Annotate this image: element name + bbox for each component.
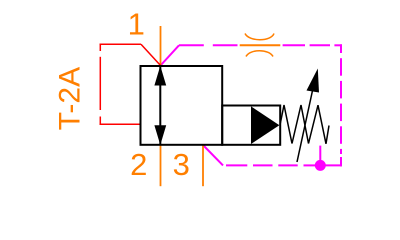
pilot supply left dashed vertical (red) [99,44,101,125]
svg-text:T-2A: T-2A [54,67,87,130]
orifice upper arc [245,34,274,40]
pilot poppet triangle [251,106,279,144]
pilot supply line top horizontal (red) [100,43,142,45]
valve envelope bottom dashed line [226,164,342,166]
pilot supply bottom horizontal (red) [100,123,142,125]
drain junction dot [315,160,326,171]
main flow arrowhead down [154,125,166,145]
port 2 line (orange) [160,145,162,186]
svg-text:3: 3 [173,147,190,182]
pilot stage box [222,106,280,145]
svg-text:1: 1 [128,7,145,42]
main flow double arrow shaft [159,66,161,145]
orifice solid line (orange) [240,44,281,46]
pilot supply diagonal to node (red) [141,44,160,65]
main flow arrowhead up [154,66,166,86]
main stage body (black square) [141,66,223,145]
valve envelope bottom diagonal (magenta) [203,145,223,165]
port 1 line (orange) [160,26,162,66]
valve envelope top diagonal (magenta) [161,45,180,65]
spring (zigzag) [280,105,329,144]
orifice lower arc [246,51,273,57]
valve envelope top dashed line [179,44,342,46]
adjustment arrowhead [307,69,320,93]
adjustment arrow shaft [297,86,314,162]
valve envelope right dashed line [340,44,342,166]
port 3 line (orange) [202,145,204,186]
drain stub line (magenta) [319,146,321,166]
svg-text:2: 2 [130,147,147,182]
